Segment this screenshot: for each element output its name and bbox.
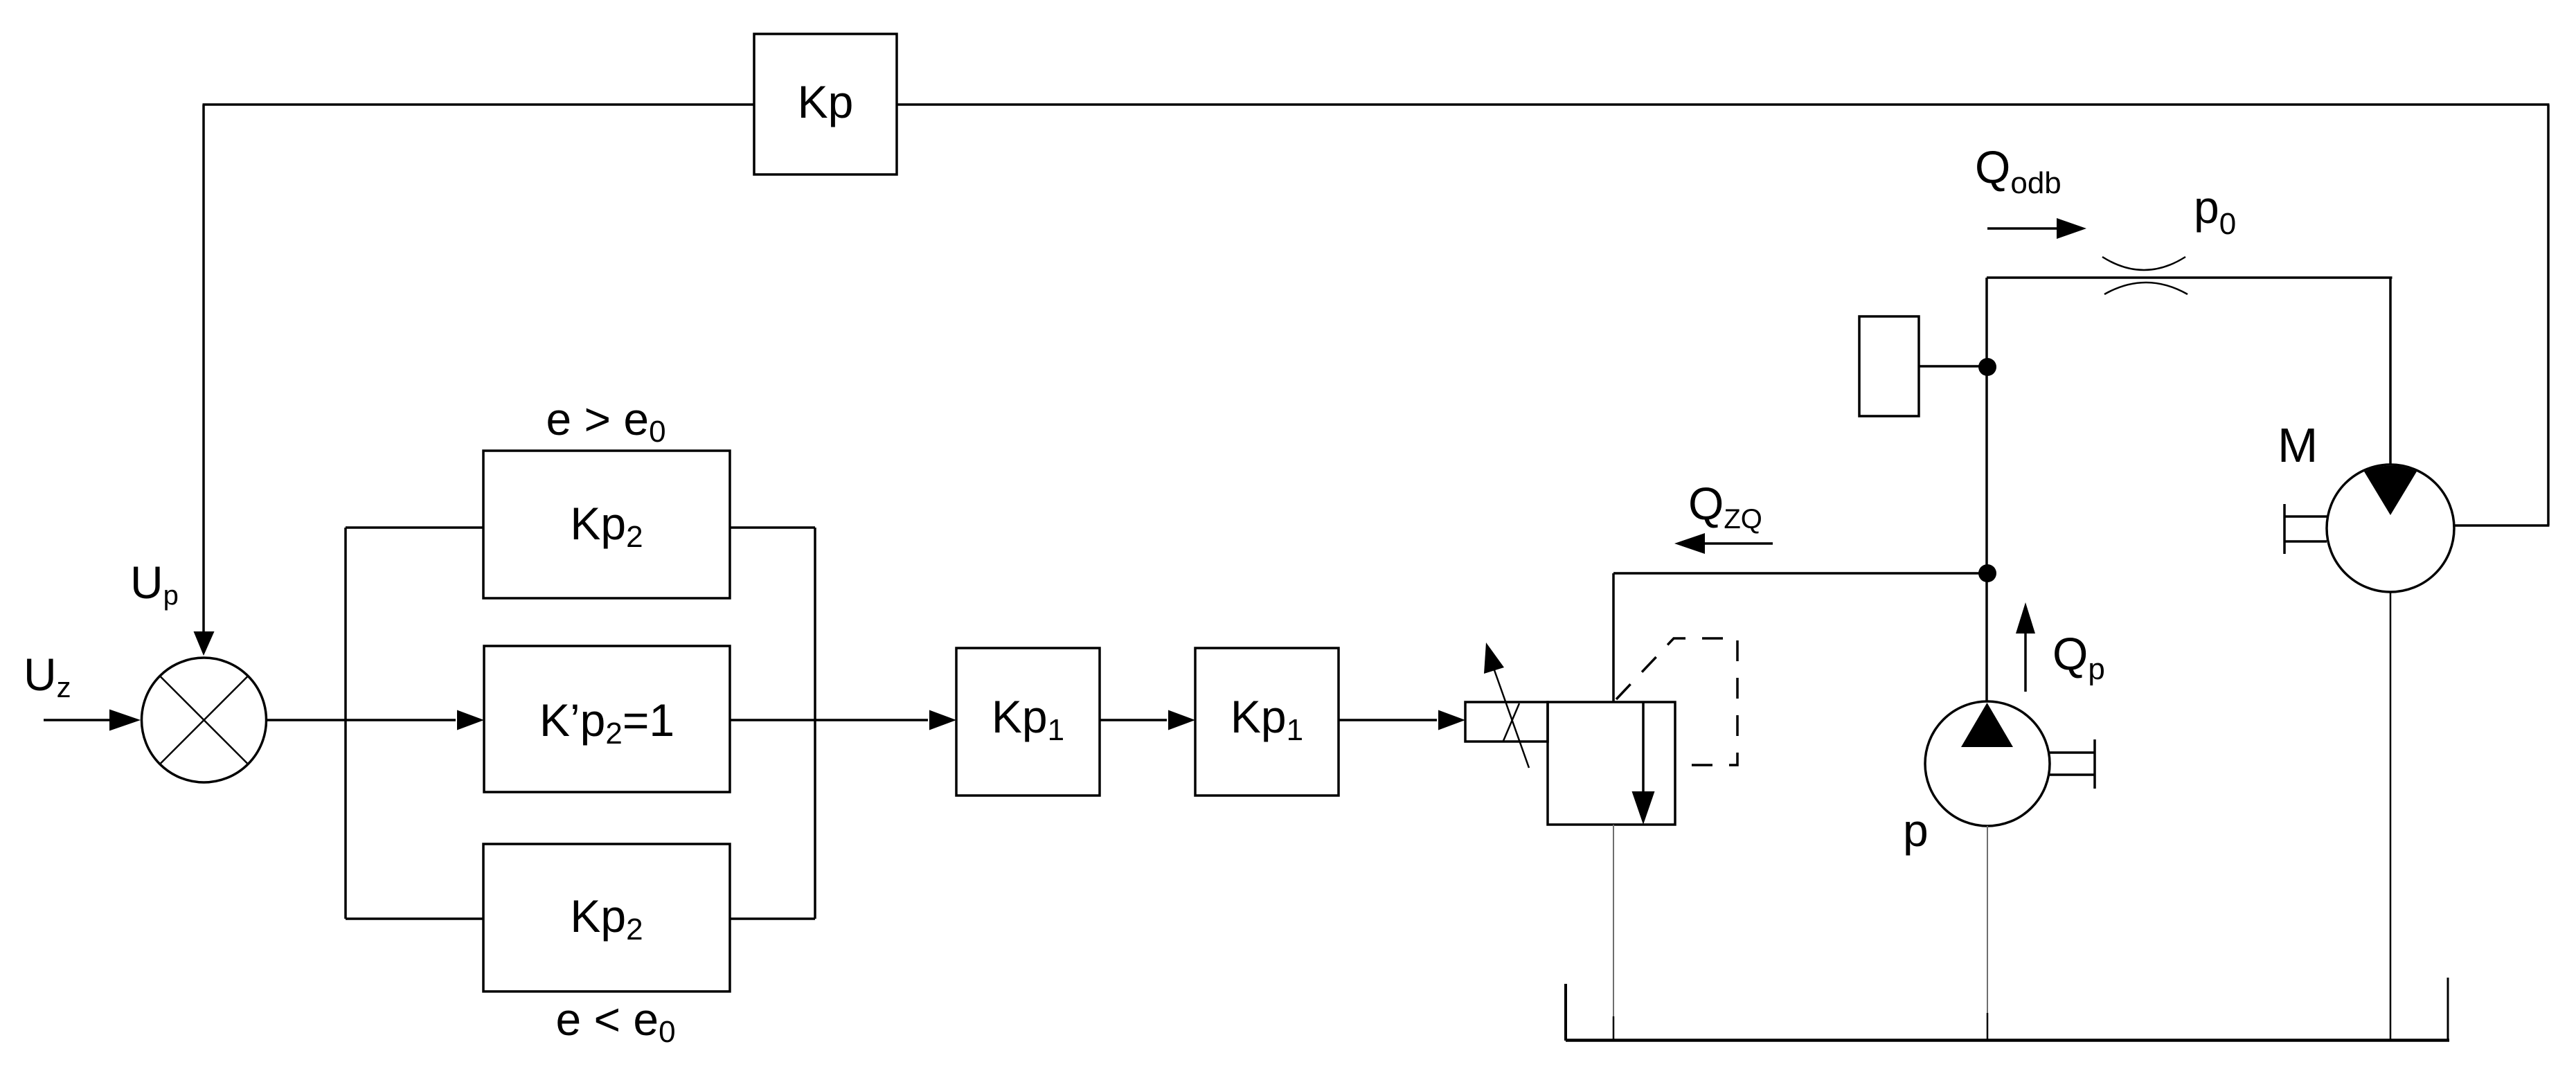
svg-text:e > e0: e > e0 [546, 393, 665, 449]
svg-text:p: p [1903, 805, 1929, 856]
svg-text:e < e0: e < e0 [555, 994, 675, 1049]
svg-text:Kp: Kp [798, 76, 854, 127]
svg-text:M: M [2278, 418, 2318, 472]
